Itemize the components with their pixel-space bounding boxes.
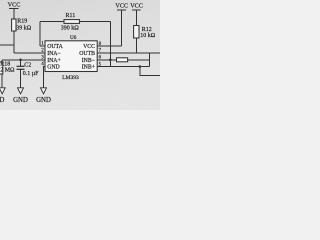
svg-text:R11: R11: [66, 13, 76, 19]
svg-text:INB+: INB+: [82, 64, 95, 70]
svg-text:OUTA: OUTA: [47, 44, 63, 50]
svg-text:39 kΩ: 39 kΩ: [16, 25, 32, 31]
svg-text:INB−: INB−: [82, 58, 95, 64]
svg-text:VCC: VCC: [130, 3, 143, 10]
svg-text:R12: R12: [142, 27, 152, 33]
svg-text:GND: GND: [36, 97, 51, 104]
svg-text:0.1 µF: 0.1 µF: [23, 71, 39, 77]
svg-text:INA−: INA−: [47, 51, 61, 57]
svg-text:390 kΩ: 390 kΩ: [61, 25, 80, 31]
svg-text:C2: C2: [24, 62, 31, 68]
svg-text:LM393: LM393: [62, 75, 79, 81]
svg-text:INA+: INA+: [47, 58, 61, 64]
svg-text:10 kΩ: 10 kΩ: [140, 33, 156, 39]
svg-text:GND: GND: [47, 64, 60, 70]
svg-text:GND: GND: [0, 97, 4, 104]
svg-text:VCC: VCC: [83, 44, 95, 50]
svg-text:R19: R19: [17, 18, 27, 24]
svg-text:VCC: VCC: [115, 3, 128, 10]
svg-text:OUTB: OUTB: [79, 51, 95, 57]
svg-text:VCC: VCC: [8, 1, 21, 8]
svg-text:U6: U6: [70, 35, 77, 41]
svg-text:2 MΩ: 2 MΩ: [0, 68, 15, 74]
svg-text:GND: GND: [13, 97, 28, 104]
